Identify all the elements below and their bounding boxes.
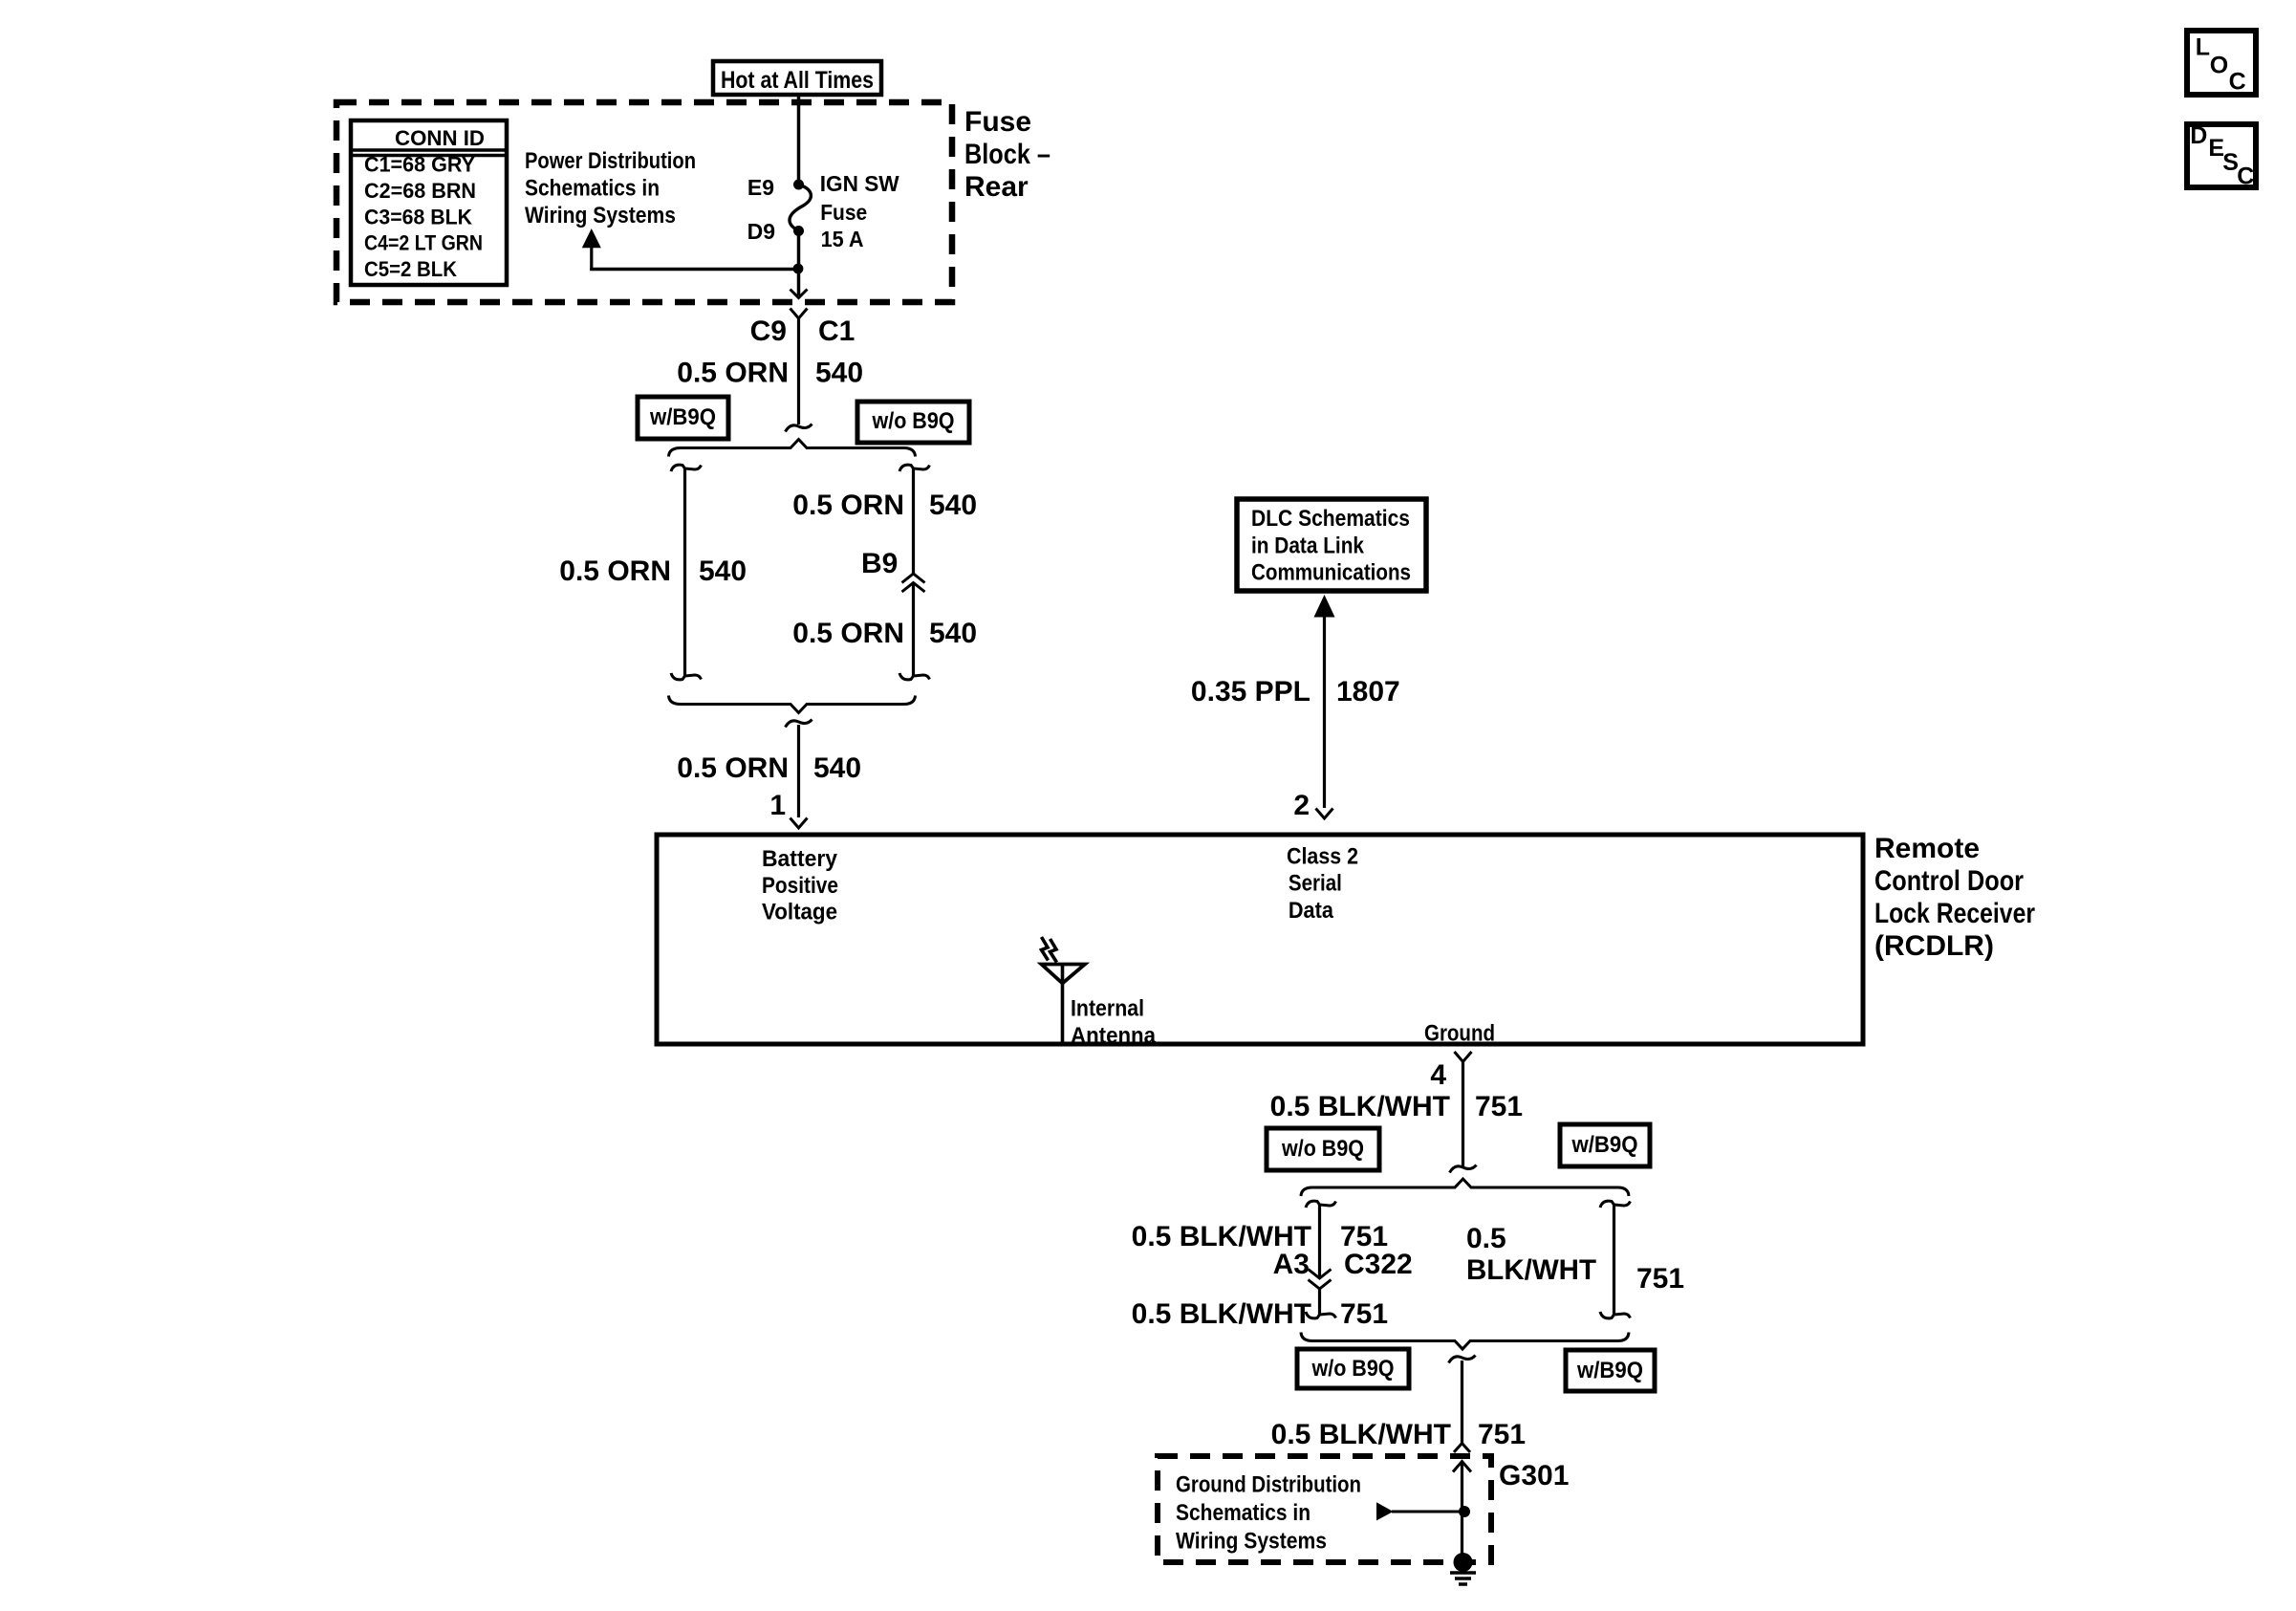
internal antenna stem (1061, 965, 1065, 1043)
svg-text:Ground: Ground (1424, 1021, 1495, 1047)
svg-text:540: 540 (813, 752, 861, 784)
svg-text:751: 751 (1340, 1298, 1388, 1330)
svg-text:w/o B9Q: w/o B9Q (1311, 1356, 1395, 1382)
option label box w/B9Q (638, 397, 728, 439)
svg-text:E9: E9 (747, 175, 774, 200)
svg-text:Ground Distribution: Ground Distribution (1176, 1471, 1361, 1497)
svg-text:540: 540 (699, 555, 747, 587)
svg-text:A3: A3 (1273, 1249, 1310, 1280)
svg-text:BLK/WHT: BLK/WHT (1466, 1254, 1596, 1286)
svg-text:IGN SW: IGN SW (820, 171, 899, 196)
arrow to DLC Schematics (1314, 595, 1335, 618)
svg-text:Communications: Communications (1251, 560, 1411, 586)
svg-text:Serial: Serial (1289, 871, 1342, 897)
svg-text:O: O (2210, 53, 2228, 79)
svg-text:1807: 1807 (1336, 676, 1400, 708)
svg-text:D9: D9 (747, 219, 775, 244)
svg-text:540: 540 (815, 358, 863, 389)
svg-text:Data: Data (1289, 898, 1334, 924)
svg-text:w/B9Q: w/B9Q (649, 404, 716, 430)
wire 540 from fuse block to option splice (797, 318, 800, 425)
Ground Distribution dashed boundary (1158, 1456, 1491, 1562)
LOC legend box (2187, 31, 2256, 95)
svg-text:Voltage: Voltage (762, 899, 837, 925)
svg-text:Control Door: Control Door (1874, 865, 2024, 897)
svg-text:751: 751 (1478, 1419, 1526, 1450)
bus brace merge (751) (1301, 1333, 1629, 1350)
splice wave above option braces (786, 425, 812, 432)
connector C9/C1 at fuse block (791, 309, 808, 319)
svg-text:4: 4 (1430, 1059, 1446, 1091)
connector at RCDLR pin 1 (791, 818, 808, 829)
fuse element IGN SW 15A (790, 185, 811, 231)
svg-text:0.5: 0.5 (1466, 1223, 1506, 1254)
svg-text:in Data Link: in Data Link (1251, 533, 1365, 559)
svg-text:Fuse: Fuse (820, 200, 867, 225)
svg-text:C9: C9 (750, 316, 787, 347)
arrowhead at fuse block exit (791, 290, 808, 298)
svg-text:1: 1 (769, 790, 786, 821)
RCDLR component box (657, 835, 1863, 1044)
svg-text:0.5 ORN: 0.5 ORN (792, 618, 904, 649)
arrow to Power Distribution Schematics (582, 229, 601, 248)
svg-text:Schematics in: Schematics in (1176, 1500, 1310, 1526)
svg-text:L: L (2196, 34, 2210, 61)
connector C322 double chevron (1309, 1270, 1332, 1279)
right branch wire 751 w/B9Q (1600, 1201, 1631, 1208)
wire 751 to G301 (1449, 1356, 1476, 1363)
svg-text:C: C (2229, 69, 2246, 96)
svg-text:C2=68 BRN: C2=68 BRN (364, 179, 476, 203)
svg-text:Rear: Rear (964, 171, 1029, 203)
svg-text:B9: B9 (861, 548, 898, 579)
svg-text:Remote: Remote (1874, 833, 1980, 864)
svg-text:Battery: Battery (762, 846, 838, 872)
CONN ID table header separator (351, 148, 507, 152)
ground terminal dot (1454, 1553, 1473, 1572)
wire 1807 0.35 PPL class 2 serial data (1323, 616, 1326, 808)
svg-text:Power Distribution: Power Distribution (525, 148, 696, 174)
svg-text:G301: G301 (1499, 1460, 1569, 1491)
Hot at All Times label box (713, 61, 881, 95)
svg-text:751: 751 (1475, 1091, 1523, 1122)
svg-text:C1=68 GRY: C1=68 GRY (364, 153, 475, 177)
svg-text:2: 2 (1293, 790, 1310, 821)
svg-text:751: 751 (1636, 1263, 1684, 1295)
connector B9 double chevron (902, 574, 925, 583)
svg-text:CONN ID: CONN ID (395, 126, 485, 150)
bus brace merge (540) (669, 696, 916, 713)
left branch wire 751 lower half (1318, 1289, 1321, 1316)
connector half at ground distribution boundary (1454, 1444, 1470, 1453)
svg-text:Wiring Systems: Wiring Systems (1176, 1529, 1327, 1555)
option label box w/B9Q (751 split) (1560, 1124, 1650, 1166)
wire 540 to RCDLR pin 1 (786, 720, 812, 728)
ground distribution branch wire (1392, 1511, 1462, 1513)
svg-text:Class 2: Class 2 (1287, 843, 1358, 869)
svg-text:0.5 BLK/WHT: 0.5 BLK/WHT (1270, 1091, 1450, 1122)
svg-text:D: D (2190, 122, 2207, 149)
svg-text:w/o B9Q: w/o B9Q (1281, 1136, 1364, 1162)
wire 751 from RCDLR ground (1462, 1062, 1464, 1167)
ground symbol bars (1450, 1571, 1476, 1575)
svg-text:Schematics in: Schematics in (525, 176, 660, 202)
svg-text:C4=2 LT GRN: C4=2 LT GRN (364, 231, 483, 255)
fuse terminal dot E9 (793, 180, 804, 190)
svg-text:(RCDLR): (RCDLR) (1874, 930, 1994, 962)
svg-text:15 A: 15 A (821, 227, 864, 251)
svg-text:0.5 BLK/WHT: 0.5 BLK/WHT (1271, 1419, 1451, 1450)
option label box w/B9Q (751 merge) (1566, 1350, 1655, 1391)
fuse terminal dot D9 (793, 226, 804, 236)
svg-text:C5=2 BLK: C5=2 BLK (364, 257, 457, 281)
ground branch junction dot (1459, 1506, 1470, 1517)
svg-text:0.5 BLK/WHT: 0.5 BLK/WHT (1132, 1298, 1311, 1330)
ground entry chevron G301 (1453, 1462, 1471, 1472)
bus brace split (751) (1301, 1179, 1629, 1196)
svg-text:Wiring Systems: Wiring Systems (525, 203, 676, 229)
svg-text:Fuse: Fuse (964, 106, 1031, 138)
svg-text:0.5 ORN: 0.5 ORN (677, 752, 789, 784)
svg-text:C1: C1 (818, 316, 855, 347)
ground distribution branch arrow (1376, 1502, 1394, 1520)
wire inside ground distribution box (1461, 1462, 1463, 1555)
svg-text:w/o B9Q: w/o B9Q (872, 408, 955, 434)
svg-text:Hot at All Times: Hot at All Times (721, 67, 874, 94)
svg-text:0.5 ORN: 0.5 ORN (677, 358, 789, 389)
connector at RCDLR pin 2 (1316, 809, 1333, 819)
svg-text:0.5 ORN: 0.5 ORN (559, 555, 671, 587)
svg-text:540: 540 (929, 618, 977, 649)
wire: Hot at All Times into fuse E9 (797, 95, 801, 185)
svg-text:Internal: Internal (1071, 996, 1144, 1022)
bus brace split (540) (669, 440, 916, 457)
svg-text:Block –: Block – (964, 139, 1051, 170)
wire: fuse D9 down to fuse block exit (797, 231, 801, 296)
svg-text:0.5 ORN: 0.5 ORN (792, 490, 904, 521)
svg-text:Antenna: Antenna (1071, 1023, 1157, 1049)
svg-text:DLC Schematics: DLC Schematics (1251, 506, 1410, 532)
internal antenna squiggles (1042, 937, 1049, 961)
left branch wire 751 via C322 (1306, 1201, 1336, 1208)
connector at RCDLR pin 4 (1455, 1052, 1472, 1062)
svg-text:540: 540 (929, 490, 977, 521)
wire from fuse junction to arrow (590, 268, 798, 271)
DESC legend box (2187, 124, 2256, 187)
svg-text:C3=68 BLK: C3=68 BLK (364, 205, 472, 229)
DLC Schematics reference box (1237, 499, 1426, 591)
internal antenna triangle (1042, 965, 1086, 984)
junction dot at fuse output (793, 264, 804, 274)
svg-text:0.35 PPL: 0.35 PPL (1191, 676, 1310, 708)
right branch wire 540 w/o B9Q (899, 465, 930, 471)
right branch wire 540 lower half (912, 583, 915, 678)
option label box w/o B9Q (751 merge) (1297, 1349, 1409, 1388)
left branch wire 540 w/B9Q (671, 465, 702, 471)
svg-text:C: C (2237, 163, 2254, 190)
svg-text:Positive: Positive (762, 873, 838, 899)
CONN ID table box (351, 120, 507, 285)
svg-text:w/B9Q: w/B9Q (1576, 1358, 1643, 1383)
Fuse Block - Rear dashed boundary (336, 102, 952, 302)
option label box w/o B9Q (751 split) (1267, 1128, 1379, 1170)
svg-text:Lock Receiver: Lock Receiver (1874, 898, 2035, 929)
svg-text:C322: C322 (1344, 1249, 1413, 1280)
svg-text:w/B9Q: w/B9Q (1571, 1132, 1638, 1158)
option label box w/o B9Q (857, 402, 969, 443)
